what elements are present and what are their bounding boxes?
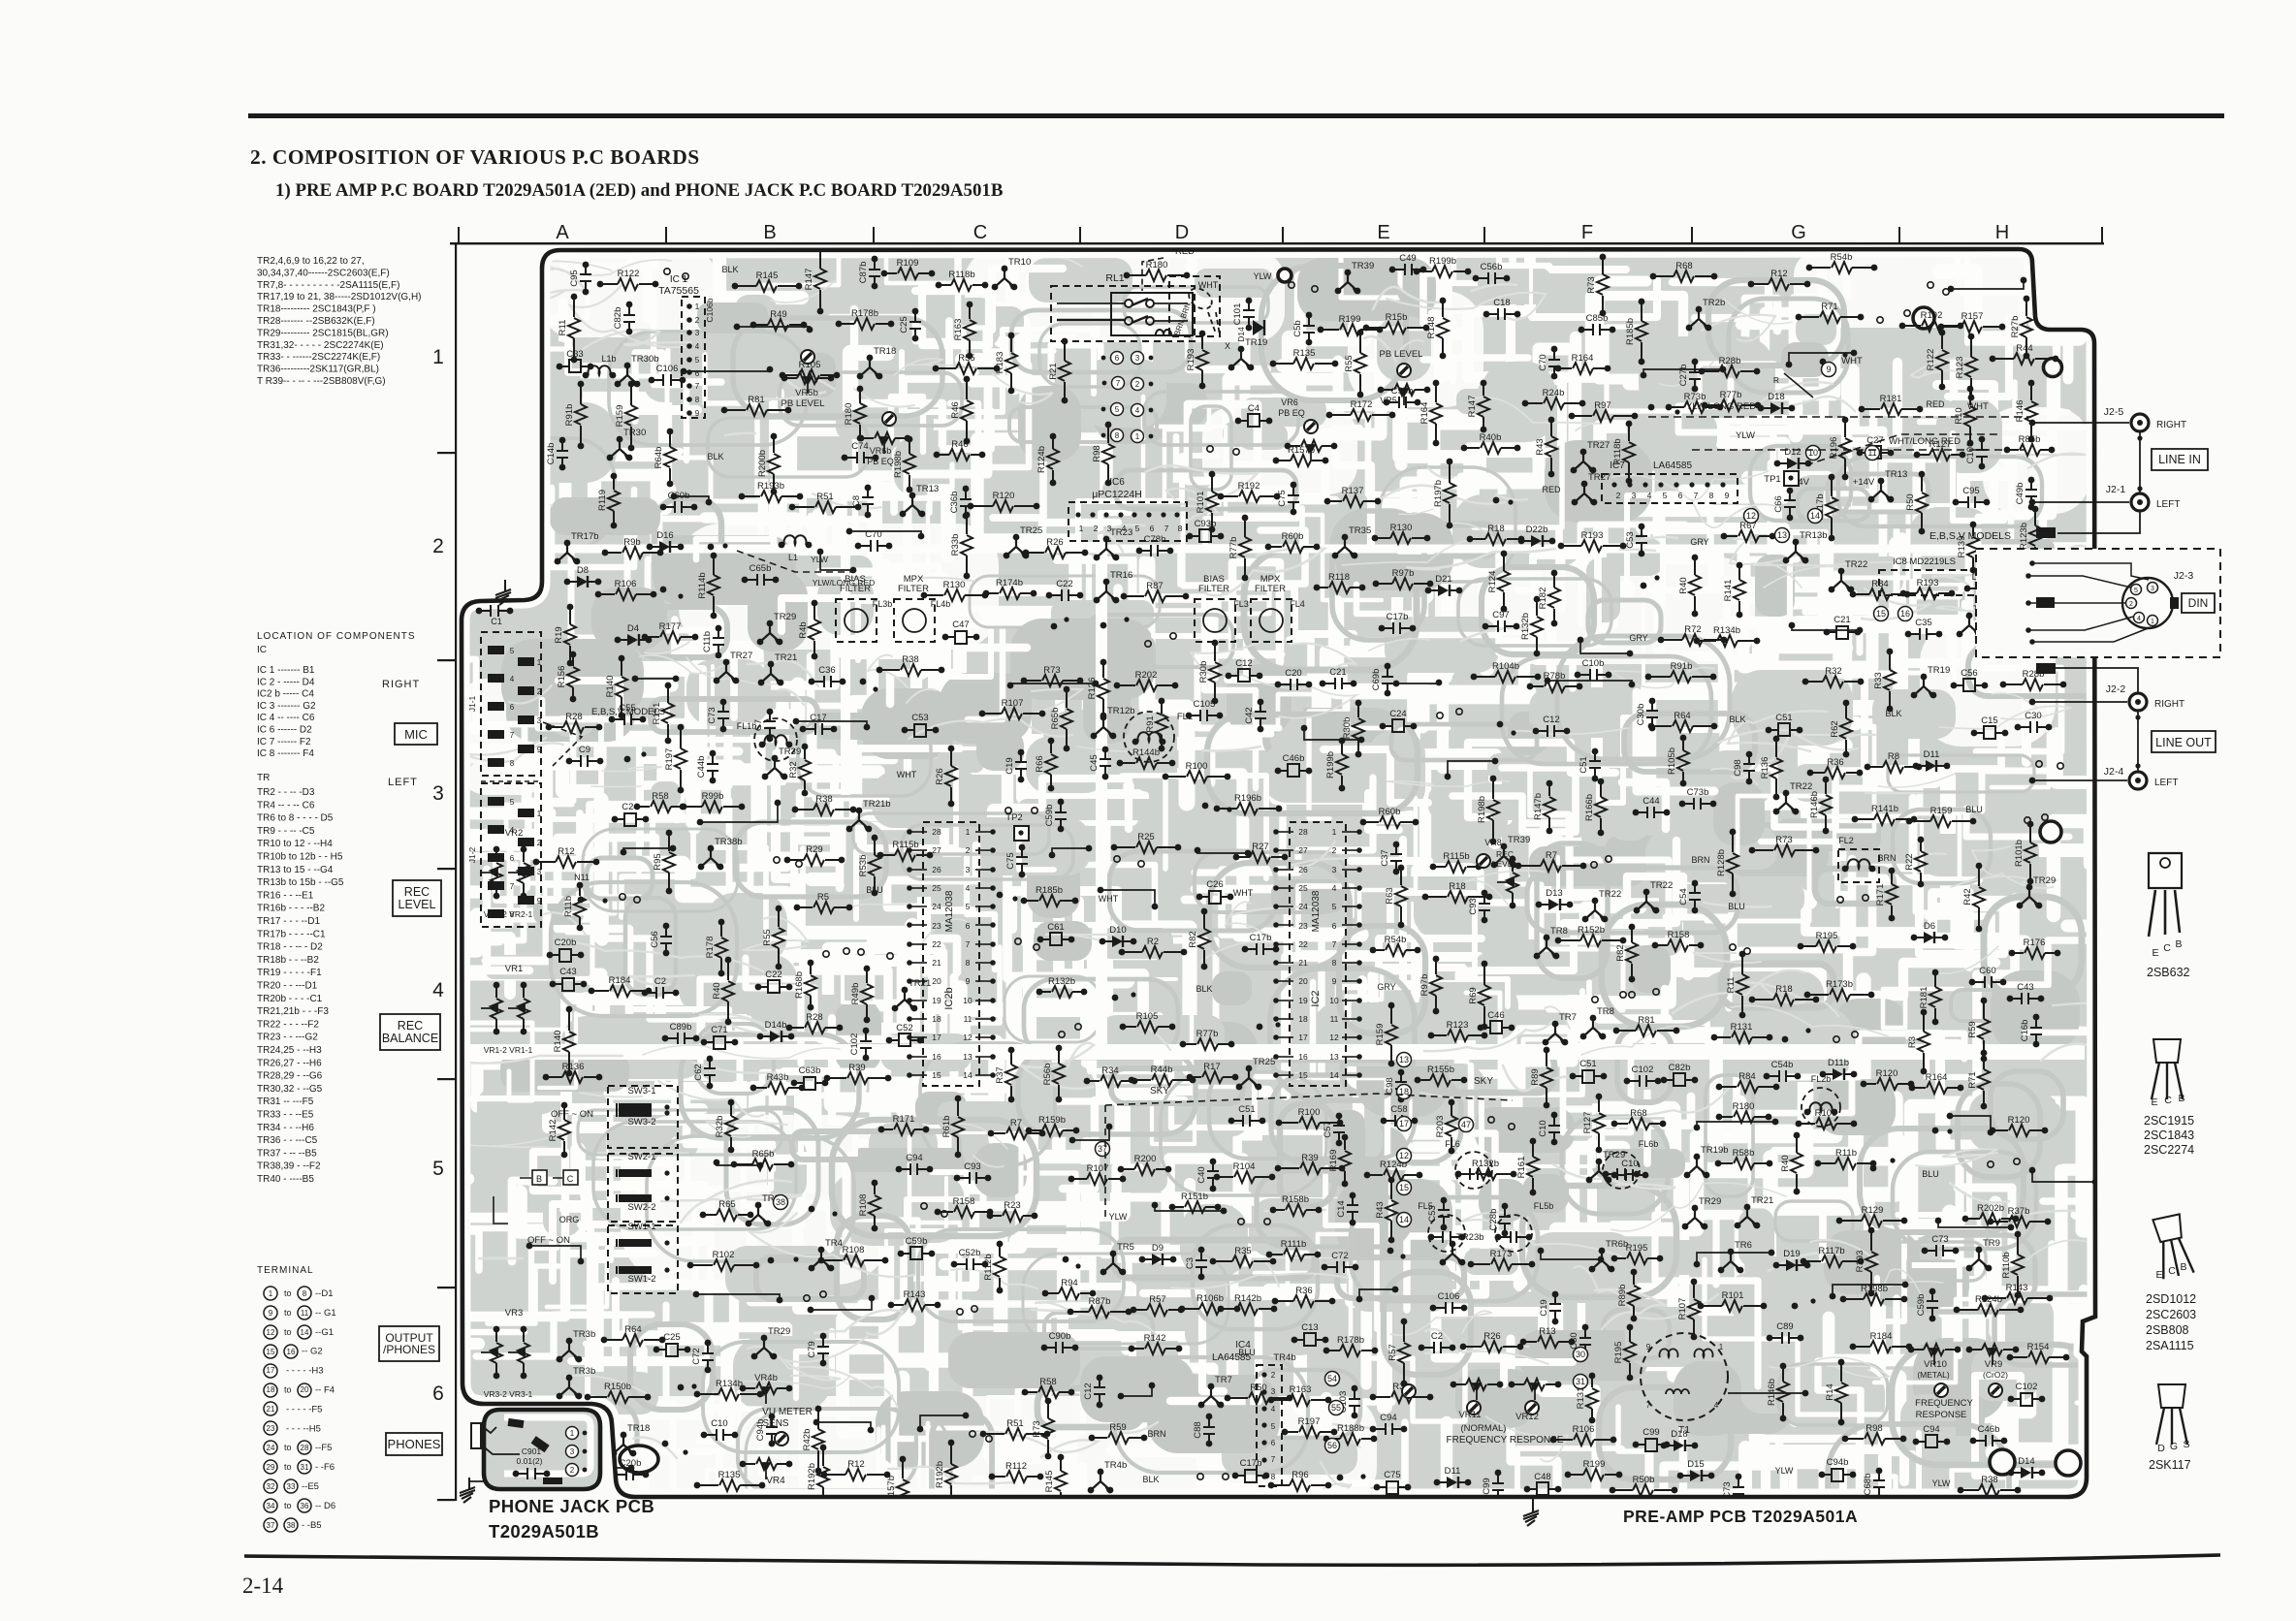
svg-text:R115b: R115b	[1443, 851, 1469, 862]
svg-text:VR4: VR4	[766, 1476, 785, 1486]
svg-text:13: 13	[1329, 1052, 1339, 1062]
svg-text:C98: C98	[1385, 1077, 1395, 1094]
svg-text:L1: L1	[788, 553, 798, 562]
resistor R158b	[1273, 1204, 1319, 1216]
resistor R185b	[1024, 895, 1075, 906]
svg-text:C56: C56	[1961, 668, 1977, 679]
svg-text:3: 3	[695, 329, 700, 337]
svg-text:7: 7	[1646, 1401, 1651, 1410]
resistor R178	[716, 919, 727, 977]
svg-text:R143: R143	[2006, 1283, 2028, 1293]
resistor R77b	[1705, 399, 1758, 411]
wire	[1697, 1122, 1775, 1128]
svg-text:19: 19	[932, 996, 941, 1005]
svg-text:C88: C88	[1193, 1421, 1203, 1438]
svg-text:R127: R127	[1582, 1112, 1593, 1134]
svg-text:TR23 - - ---G2: TR23 - - ---G2	[257, 1033, 318, 1043]
svg-text:8: 8	[1178, 524, 1183, 533]
svg-text:TR18b - - --B2: TR18b - - --B2	[257, 955, 319, 966]
capacitor C95	[1956, 496, 1987, 508]
wire	[567, 1468, 631, 1479]
svg-text:R62: R62	[1830, 720, 1840, 737]
resistor R65	[703, 1209, 750, 1221]
svg-text:/PHONES: /PHONES	[383, 1343, 435, 1356]
svg-text:R129: R129	[1862, 1205, 1884, 1216]
svg-text:30: 30	[1576, 1350, 1585, 1359]
svg-text:DIN: DIN	[2188, 596, 2209, 610]
resistor R39	[1278, 1162, 1342, 1174]
svg-text:VR3: VR3	[505, 1308, 523, 1319]
transistor TR29	[1685, 1208, 1705, 1226]
svg-text:FL1: FL1	[1177, 712, 1193, 722]
svg-text:R122: R122	[618, 269, 640, 279]
diode D14b	[760, 1035, 791, 1037]
svg-text:FL5b: FL5b	[1534, 1201, 1554, 1211]
svg-text:16: 16	[1298, 1052, 1308, 1062]
capacitor C69b	[1382, 663, 1393, 697]
svg-text:R115b: R115b	[892, 840, 918, 850]
svg-text:IC 2 - ----- D4: IC 2 - ----- D4	[257, 677, 315, 687]
svg-text:R178b: R178b	[1337, 1335, 1364, 1346]
resistor R120	[1993, 1125, 2045, 1136]
svg-text:9: 9	[1725, 491, 1730, 500]
resistor R91	[1156, 698, 1167, 752]
capacitor C53	[1636, 524, 1647, 557]
resistor R46	[961, 376, 973, 445]
svg-text:R63: R63	[1385, 887, 1395, 904]
resistor R147	[814, 244, 826, 315]
svg-text:R118b: R118b	[948, 270, 974, 280]
capacitor C25	[656, 1349, 687, 1351]
pre-amp board outline	[462, 249, 2095, 1497]
transistor pkg 2SB632	[2149, 853, 2182, 888]
resistor R38	[879, 664, 941, 676]
via pads	[620, 894, 625, 900]
resistor R71	[1799, 311, 1861, 323]
solder pads	[1792, 1303, 1799, 1310]
svg-text:IC 8 ------- F4: IC 8 ------- F4	[257, 748, 314, 759]
svg-text:WHT: WHT	[1841, 356, 1863, 366]
resistor R199b	[1336, 738, 1348, 792]
svg-text:YLW: YLW	[1736, 430, 1755, 441]
svg-text:26: 26	[1298, 865, 1308, 874]
resistor R28b	[1702, 366, 1757, 377]
svg-text:25: 25	[932, 883, 941, 893]
resistor R22	[1915, 837, 1927, 888]
diode D18b	[1967, 588, 1998, 589]
solder pads	[1257, 1024, 1263, 1031]
svg-text:R91: R91	[1145, 715, 1156, 732]
svg-text:9: 9	[966, 976, 971, 986]
svg-text:R110b: R110b	[2001, 1252, 2012, 1278]
resistor R199	[1568, 1469, 1619, 1480]
wire	[623, 848, 673, 852]
svg-text:14: 14	[963, 1070, 973, 1080]
svg-text:11: 11	[301, 1309, 309, 1318]
svg-text:R203: R203	[1435, 1116, 1446, 1138]
svg-text:54: 54	[1327, 1374, 1337, 1383]
svg-text:24: 24	[1298, 902, 1308, 911]
svg-text:R36: R36	[1295, 1286, 1312, 1296]
svg-text:C42: C42	[1244, 707, 1255, 723]
svg-text:IC 7 ------ F2: IC 7 ------ F2	[257, 737, 311, 747]
svg-text:R7: R7	[1010, 1118, 1022, 1128]
transistor TR3b	[559, 1341, 579, 1359]
transistor TR17b	[558, 543, 577, 561]
svg-text:TR9: TR9	[1983, 1238, 2000, 1249]
svg-text:R124: R124	[1487, 571, 1498, 593]
capacitor C94b	[766, 1414, 778, 1447]
via pads	[1837, 897, 1843, 903]
svg-text:C22: C22	[1056, 579, 1072, 589]
svg-text:C82b: C82b	[613, 307, 623, 330]
svg-text:YLW: YLW	[811, 555, 828, 564]
transistor TR27	[1575, 484, 1594, 502]
resistor R104b	[1474, 671, 1538, 683]
relay pins	[1111, 352, 1124, 365]
svg-text:3: 3	[1107, 524, 1112, 533]
svg-text:C52b: C52b	[959, 1248, 981, 1258]
svg-text:C25: C25	[899, 316, 909, 333]
resistor R192	[1221, 491, 1277, 502]
svg-text:9: 9	[1332, 976, 1337, 986]
transistor TR13	[1871, 481, 1891, 499]
solder pads	[1932, 1128, 1939, 1134]
capacitor C40	[1207, 1159, 1219, 1192]
capacitor C59b	[1927, 1288, 1938, 1322]
svg-text:OFF ~ ON: OFF ~ ON	[551, 1109, 593, 1120]
svg-text:R163: R163	[953, 319, 964, 341]
capacitor C85b	[1581, 324, 1612, 335]
svg-text:24: 24	[932, 902, 941, 911]
resistor R50	[1916, 471, 1928, 535]
svg-text:D15: D15	[1687, 1459, 1704, 1470]
resistor R68	[1653, 270, 1714, 282]
wire	[1121, 1385, 1152, 1396]
capacitor C103	[1349, 1385, 1360, 1419]
capacitor C27	[1860, 452, 1891, 454]
via pads	[1238, 1219, 1244, 1224]
svg-text:C2: C2	[654, 976, 666, 987]
transistor TR4b	[1091, 1472, 1110, 1490]
diode D13	[1539, 904, 1570, 906]
svg-text:17: 17	[1298, 1033, 1308, 1042]
FL2b	[1802, 1088, 1840, 1127]
capacitor C8	[862, 485, 874, 519]
svg-text:TR13b to 15b - --G5: TR13b to 15b - --G5	[257, 877, 344, 888]
svg-text:R68: R68	[1630, 1108, 1646, 1119]
resistor R55	[936, 363, 997, 374]
svg-text:TR18: TR18	[874, 346, 896, 357]
svg-text:TR29: TR29	[1699, 1196, 1721, 1207]
svg-text:21: 21	[932, 958, 941, 968]
svg-text:R51: R51	[816, 492, 833, 502]
svg-text:- -F6: - -F6	[315, 1462, 335, 1473]
transistor TR29	[2020, 887, 2039, 906]
svg-text:RL1: RL1	[1105, 272, 1124, 284]
resistor R97b	[1430, 956, 1442, 1015]
capacitor C24	[1383, 725, 1414, 727]
svg-text:PB LEVEL: PB LEVEL	[781, 398, 825, 409]
svg-text:3: 3	[1632, 491, 1637, 500]
capacitor C53	[1438, 1197, 1450, 1231]
resistor R177	[645, 631, 695, 643]
resistor R156	[567, 652, 579, 703]
svg-text:R35: R35	[1234, 1246, 1251, 1256]
resistor R145	[1055, 1454, 1067, 1509]
capacitor C51	[1231, 1115, 1262, 1127]
resistor R81	[1616, 1025, 1676, 1036]
svg-text:R136: R136	[1760, 757, 1770, 779]
transistor TR27	[717, 662, 736, 681]
via pads	[970, 1431, 975, 1437]
wire	[1950, 1116, 1991, 1132]
svg-text:1: 1	[1719, 1343, 1724, 1351]
svg-text:RIGHT: RIGHT	[2156, 420, 2186, 430]
svg-text:R11b: R11b	[1835, 1148, 1857, 1159]
resistor R73b	[1669, 401, 1720, 413]
svg-text:R15b: R15b	[1386, 312, 1408, 323]
resistor R59	[1978, 998, 1990, 1063]
resistor R101b	[2025, 821, 2036, 885]
svg-text:R142: R142	[548, 1120, 558, 1142]
svg-text:18: 18	[1298, 1014, 1308, 1024]
svg-text:A: A	[556, 222, 569, 243]
transistor pkg 2SD1012 group	[2151, 1214, 2193, 1279]
resistor R112	[992, 1471, 1040, 1482]
grid header line	[450, 242, 2104, 244]
svg-text:- -B5: - -B5	[302, 1520, 322, 1531]
capacitor C49b	[2025, 477, 2037, 511]
svg-text:3: 3	[2151, 586, 2154, 592]
svg-text:TR17b: TR17b	[571, 531, 599, 542]
svg-text:15: 15	[267, 1348, 275, 1356]
svg-text:R164: R164	[1419, 402, 1430, 425]
svg-text:C52: C52	[896, 1023, 912, 1033]
svg-text:R192: R192	[1921, 310, 1943, 321]
transistor TR23	[1097, 539, 1116, 557]
resistor R122	[1936, 330, 1948, 391]
svg-text:VR6b: VR6b	[870, 446, 892, 456]
svg-text:6: 6	[432, 1383, 444, 1405]
svg-text:R73: R73	[1586, 276, 1597, 293]
svg-text:R202: R202	[1135, 670, 1158, 681]
capacitor C98	[1743, 751, 1755, 785]
capacitor C17b	[1382, 622, 1413, 634]
svg-text:FILTER: FILTER	[1198, 584, 1229, 594]
resistor R142	[558, 1102, 570, 1159]
wire	[717, 1162, 760, 1165]
svg-text:C70: C70	[1538, 354, 1548, 370]
svg-text:TR30b: TR30b	[631, 354, 659, 365]
resistor R65b	[1061, 686, 1072, 752]
svg-text:2SC1915: 2SC1915	[2144, 1114, 2194, 1128]
resistor R147b	[1544, 780, 1555, 835]
via pads	[1015, 938, 1021, 944]
svg-text:TR38b: TR38b	[715, 837, 743, 847]
dolby links	[520, 1177, 562, 1179]
svg-text:9: 9	[1826, 365, 1831, 374]
svg-text:R28b: R28b	[1719, 356, 1741, 366]
svg-text:TR16 - - --E1: TR16 - - --E1	[257, 890, 314, 901]
svg-text:R40: R40	[712, 982, 722, 999]
capacitor C16b	[2030, 1014, 2042, 1048]
capacitor C70	[1548, 346, 1560, 380]
phone jack board	[484, 1410, 600, 1489]
svg-text:C12: C12	[1235, 658, 1252, 669]
resistor R30b	[1209, 640, 1221, 705]
svg-text:R124b: R124b	[1036, 446, 1047, 473]
resistor R82	[1198, 908, 1210, 970]
svg-text:TR31 -- ---F5: TR31 -- ---F5	[257, 1097, 314, 1107]
svg-text:C54b: C54b	[1771, 1060, 1794, 1070]
generic component scatter	[526, 244, 2099, 1524]
svg-text:15: 15	[1876, 609, 1886, 619]
resistor R2	[1122, 946, 1184, 958]
wire	[1833, 1285, 1905, 1296]
resistor R157b	[1276, 455, 1325, 466]
resistor R146b	[1777, 1363, 1789, 1422]
svg-text:D6: D6	[1924, 921, 1935, 932]
svg-text:R64: R64	[624, 1324, 641, 1335]
svg-text:R134b: R134b	[1713, 625, 1740, 636]
svg-text:D9: D9	[1152, 1243, 1164, 1254]
capacitor C75	[1288, 482, 1299, 516]
svg-text:VR10: VR10	[1924, 1359, 1947, 1370]
DIN connector	[2122, 578, 2173, 628]
svg-text:R32: R32	[788, 761, 799, 778]
capacitor C24	[615, 818, 646, 820]
svg-text:C93b: C93b	[1195, 519, 1217, 529]
svg-text:IC2 b ----- C4: IC2 b ----- C4	[257, 689, 314, 700]
svg-text:2: 2	[1135, 380, 1140, 389]
via pads	[1629, 992, 1635, 998]
svg-text:10: 10	[963, 996, 973, 1005]
resistor R105	[1123, 1021, 1172, 1033]
wire	[1052, 848, 1089, 855]
svg-text:C: C	[2168, 1265, 2176, 1277]
capacitor C74	[845, 452, 876, 463]
svg-text:C100: C100	[1965, 442, 1976, 464]
diode D6	[1914, 937, 1945, 938]
resistor R122	[600, 278, 655, 290]
resistor R39	[827, 1072, 888, 1084]
svg-text:2SC2603: 2SC2603	[2146, 1308, 2196, 1321]
svg-text:LEFT: LEFT	[2156, 499, 2180, 510]
svg-text:TR39: TR39	[779, 747, 801, 757]
solder pads	[660, 587, 667, 593]
wire	[737, 327, 810, 330]
svg-text:5: 5	[1115, 405, 1120, 414]
resistor R128b	[1727, 829, 1738, 898]
FL6b	[1603, 1152, 1640, 1189]
svg-text:R169: R169	[1328, 1150, 1339, 1172]
svg-text:R158: R158	[1668, 930, 1690, 940]
resistor R193	[1196, 331, 1208, 390]
resistor R29	[787, 854, 842, 866]
svg-text:-- F4: -- F4	[315, 1385, 335, 1396]
svg-text:C14b: C14b	[546, 443, 557, 465]
svg-text:4: 4	[1135, 406, 1140, 415]
svg-text:D10: D10	[1109, 925, 1126, 936]
svg-text:R178: R178	[705, 937, 716, 959]
resistor R159	[1909, 815, 1973, 827]
svg-text:VR5: VR5	[1380, 396, 1397, 405]
resistor R172	[1329, 409, 1392, 421]
svg-text:C54: C54	[1678, 888, 1689, 905]
svg-text:28: 28	[301, 1444, 309, 1452]
solder pads	[624, 756, 631, 763]
svg-text:VR5b: VR5b	[795, 388, 818, 398]
svg-text:C30: C30	[1569, 1332, 1579, 1349]
svg-text:TR31,32- - - - - 2SC2274K(E): TR31,32- - - - - 2SC2274K(E)	[257, 340, 384, 351]
svg-text:R81: R81	[1638, 1015, 1654, 1026]
svg-text:PHONE JACK PCB: PHONE JACK PCB	[489, 1496, 654, 1516]
svg-text:WHT: WHT	[1233, 888, 1254, 898]
capacitor C72	[1324, 1261, 1355, 1273]
svg-text:BLK: BLK	[1196, 984, 1212, 994]
resistor R58	[1025, 1386, 1071, 1398]
svg-text:TR3b: TR3b	[573, 1366, 595, 1377]
svg-text:C25: C25	[663, 1332, 680, 1343]
svg-text:VR2-2 VR2-1: VR2-2 VR2-1	[484, 909, 533, 919]
resistor R97	[1572, 410, 1635, 422]
resistor R141	[1734, 562, 1745, 619]
resistor R54b	[1809, 262, 1874, 273]
solder pads	[578, 897, 585, 904]
capacitor C10	[1548, 1112, 1560, 1146]
svg-text:5: 5	[1135, 524, 1140, 533]
circled terminals	[1397, 1053, 1412, 1067]
transistor TR16	[1097, 582, 1116, 600]
resistor R33	[1884, 649, 1896, 713]
capacitor C101	[1243, 298, 1255, 332]
capacitor C66	[1784, 488, 1796, 522]
svg-text:R132b: R132b	[1472, 1159, 1499, 1169]
svg-text:20: 20	[1298, 976, 1308, 986]
svg-text:B: B	[2178, 1093, 2184, 1104]
svg-text:C102: C102	[2016, 1382, 2038, 1392]
svg-text:R72: R72	[1684, 624, 1701, 635]
svg-text:TR29--------- 2SC1815(BL,GR): TR29--------- 2SC1815(BL,GR)	[257, 328, 389, 338]
svg-text:TR8: TR8	[1550, 926, 1568, 937]
resistor R98	[1102, 422, 1114, 487]
svg-text:2: 2	[432, 535, 444, 557]
capacitor C14	[1347, 1192, 1358, 1226]
svg-text:R132b: R132b	[1048, 976, 1075, 987]
svg-text:14: 14	[1329, 1070, 1339, 1080]
svg-text:TR4 -- - -- C6: TR4 -- - -- C6	[257, 800, 315, 810]
resistor R73	[1752, 844, 1816, 856]
svg-text:R196b: R196b	[1234, 793, 1261, 804]
diode D18	[1761, 407, 1792, 409]
via pads	[1207, 446, 1213, 452]
svg-text:R84: R84	[1738, 1071, 1755, 1082]
diode D12	[1777, 462, 1808, 464]
svg-text:WHT: WHT	[1967, 401, 1989, 412]
svg-text:LEFT: LEFT	[2154, 778, 2178, 788]
svg-text:3: 3	[1271, 1387, 1276, 1396]
svg-text:R106: R106	[1573, 1424, 1595, 1435]
svg-text:2: 2	[537, 839, 542, 847]
svg-text:R73: R73	[1032, 1420, 1042, 1437]
capacitor C63b	[794, 1082, 825, 1084]
frequency response normal	[1447, 1379, 1564, 1446]
svg-text:LINE IN: LINE IN	[2158, 453, 2201, 466]
svg-text:TA75565: TA75565	[658, 285, 699, 297]
svg-text:R107: R107	[1002, 698, 1024, 709]
resistor R73	[1042, 1398, 1054, 1460]
